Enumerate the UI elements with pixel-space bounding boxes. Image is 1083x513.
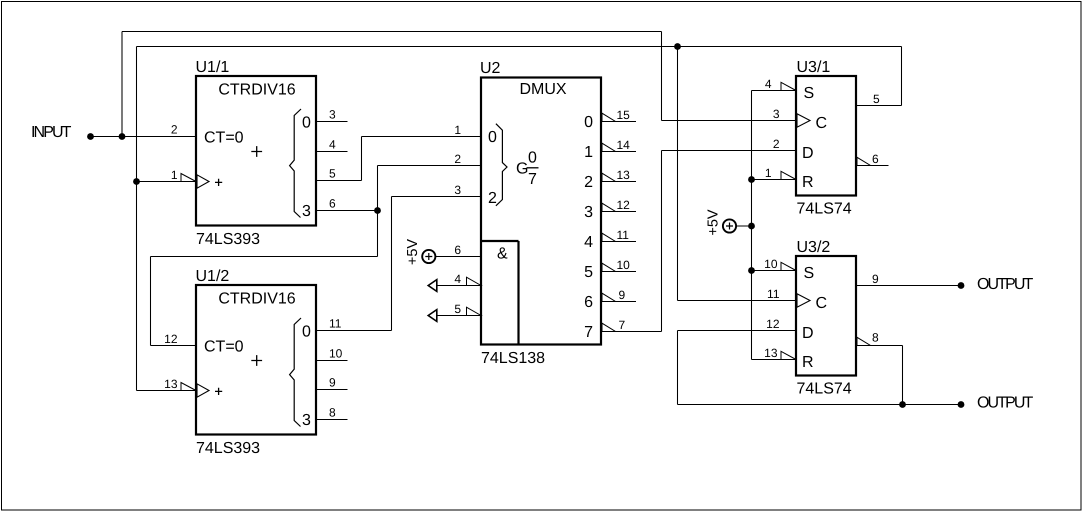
- svg-text:3: 3: [302, 203, 311, 220]
- wire: +5V rail to U3 S/R pins: [737, 91, 796, 360]
- wire: U2 out 7 to U3/1 D (pin 2): [602, 151, 796, 332]
- svg-text:CT=0: CT=0: [204, 130, 244, 147]
- svg-text:13: 13: [764, 346, 778, 360]
- stub: U3/1 pin 6: [857, 165, 889, 167]
- svg-text:3: 3: [584, 204, 593, 221]
- svg-text:3: 3: [773, 107, 780, 121]
- svg-text:1: 1: [765, 166, 772, 180]
- power +5V (U2 pin 6): [405, 239, 435, 266]
- svg-text:0: 0: [302, 323, 311, 340]
- svg-text:1: 1: [171, 168, 178, 182]
- svg-text:74LS74: 74LS74: [797, 380, 852, 397]
- svg-text:2: 2: [773, 137, 780, 151]
- stub: U1/1 pin 3: [317, 121, 348, 123]
- svg-text:S: S: [804, 265, 815, 282]
- node OUTPUT 1 terminal dot: [958, 282, 965, 289]
- flip-flop U3/1: [781, 76, 871, 196]
- svg-text:9: 9: [619, 288, 626, 302]
- svg-text:U3/2: U3/2: [797, 239, 831, 256]
- svg-text:7: 7: [584, 324, 593, 341]
- svg-text:&: &: [497, 246, 508, 263]
- svg-text:5: 5: [454, 302, 461, 316]
- svg-text:DMUX: DMUX: [519, 81, 566, 98]
- svg-text:74LS393: 74LS393: [196, 440, 260, 457]
- svg-text:4: 4: [584, 234, 593, 251]
- svg-text:OUTPUT: OUTPUT: [977, 276, 1034, 293]
- wire: clock net branch to U3/2 C (pin 11): [678, 47, 797, 301]
- svg-text:9: 9: [872, 272, 879, 286]
- svg-text:6: 6: [584, 294, 593, 311]
- svg-text:U1/1: U1/1: [196, 59, 230, 76]
- pin numbers U1/1: [171, 108, 336, 211]
- svg-text:7: 7: [619, 318, 626, 332]
- U2 output polarity wedges: [602, 113, 616, 331]
- svg-text:C: C: [816, 115, 828, 132]
- svg-text:3: 3: [454, 183, 461, 197]
- junction: clock net to U3/2 C branch: [674, 43, 681, 50]
- svg-text:6: 6: [329, 197, 336, 211]
- svg-text:D: D: [802, 325, 814, 342]
- wire: U3/2 D (pin 12) feedback from OUTPUT 2: [678, 331, 962, 405]
- junction: INPUT wire / top rail vertical: [119, 133, 126, 140]
- junction: +5V rail at U3/1 R: [748, 176, 755, 183]
- svg-text:CTRDIV16: CTRDIV16: [218, 82, 295, 99]
- junction: +5V rail at supply: [748, 223, 755, 230]
- svg-text:U3/1: U3/1: [797, 59, 831, 76]
- svg-text:S: S: [804, 85, 815, 102]
- svg-text:0: 0: [584, 114, 593, 131]
- power +5V (U3 set/reset rail): [706, 209, 737, 236]
- input terminal U2 pin 5: [428, 310, 437, 322]
- svg-text:0: 0: [488, 129, 497, 146]
- stub: U1/2 pin 9: [317, 389, 348, 391]
- svg-text:14: 14: [617, 138, 631, 152]
- svg-text:9: 9: [329, 376, 336, 390]
- wire: U3/2 Q-bar (pin 8) down to OUTPUT 2 rail: [857, 346, 903, 405]
- svg-text:6: 6: [872, 152, 879, 166]
- svg-text:10: 10: [764, 257, 778, 271]
- svg-text:1: 1: [584, 144, 593, 161]
- svg-text:U1/2: U1/2: [196, 268, 230, 285]
- svg-text:INPUT: INPUT: [31, 124, 72, 141]
- svg-text:11: 11: [767, 287, 780, 301]
- svg-text:13: 13: [617, 168, 631, 182]
- pin numbers U1/2: [164, 317, 343, 420]
- wire: U2 pin 4: [437, 285, 481, 287]
- svg-text:3: 3: [302, 412, 311, 429]
- demultiplexer U2: [481, 78, 601, 345]
- svg-text:10: 10: [617, 258, 631, 272]
- wire: INPUT net to U1/1 pin 2 and top rail to U3/1 C: [91, 32, 797, 137]
- svg-text:2: 2: [454, 152, 461, 166]
- U2 output stubs pins 15,14,13,12,11,10,9: [602, 122, 636, 302]
- svg-text:74LS393: 74LS393: [196, 231, 260, 248]
- svg-text:13: 13: [164, 377, 178, 391]
- svg-text:12: 12: [164, 332, 178, 346]
- svg-text:+5V: +5V: [706, 209, 722, 236]
- svg-text:R: R: [802, 174, 814, 191]
- svg-text:C: C: [816, 295, 828, 312]
- svg-text:5: 5: [329, 167, 336, 181]
- svg-text:0: 0: [302, 114, 311, 131]
- node OUTPUT 2 terminal dot: [958, 401, 965, 408]
- node INPUT terminal dot: [87, 133, 94, 140]
- wedge U2 pin 5: [467, 307, 482, 315]
- svg-text:5: 5: [873, 92, 880, 106]
- junction: pin 8 wire / OUTPUT 2 rail: [899, 401, 906, 408]
- svg-text:0: 0: [528, 150, 537, 167]
- letters S C D R (U3/1): [802, 85, 827, 191]
- svg-text:6: 6: [454, 243, 461, 257]
- wire: clock net from U3/1 Q (pin 5) to U1/1 pin 1 and U1/2 pin 13: [137, 47, 902, 391]
- pin numbers U3/1: [765, 77, 880, 180]
- svg-text:2: 2: [171, 123, 178, 137]
- svg-text:R: R: [802, 354, 814, 371]
- wire: U2 pin 5: [437, 315, 481, 317]
- svg-text:4: 4: [765, 77, 772, 91]
- input terminal U2 pin 4: [428, 280, 437, 292]
- svg-text:U2: U2: [480, 60, 501, 77]
- svg-text:1: 1: [454, 123, 461, 137]
- svg-text:8: 8: [329, 406, 336, 420]
- counter U1/2: [181, 285, 316, 435]
- svg-text:4: 4: [454, 272, 461, 286]
- junction: +5V rail at U3/2 S: [748, 267, 755, 274]
- svg-text:CT=0: CT=0: [204, 339, 244, 356]
- wire: U1/1 pin 5 to U2 pin 1: [317, 137, 481, 181]
- wire: U1/2 pin 11 to U2 pin 3: [317, 197, 481, 331]
- svg-text:11: 11: [329, 317, 342, 331]
- svg-text:OUTPUT: OUTPUT: [977, 395, 1034, 412]
- svg-text:+5V: +5V: [405, 239, 421, 266]
- svg-text:D: D: [802, 145, 814, 162]
- svg-text:11: 11: [617, 228, 630, 242]
- counter U1/1: [181, 76, 316, 226]
- svg-text:10: 10: [329, 347, 343, 361]
- pin numbers U2 left: [454, 123, 461, 316]
- label G 0/7 dependency: [516, 150, 537, 189]
- wire: U3/2 Q (pin 9) to OUTPUT 1: [857, 285, 961, 287]
- svg-text:12: 12: [766, 317, 780, 331]
- wire: +5V to U2 pin 6: [435, 256, 481, 258]
- pin numbers U2 outputs: [617, 108, 631, 332]
- stub: U1/2 pin 8: [317, 419, 348, 421]
- letters S C D R (U3/2): [802, 265, 827, 371]
- svg-text:5: 5: [584, 264, 593, 281]
- stub: U1/1 pin 4: [317, 151, 348, 153]
- svg-text:3: 3: [329, 108, 336, 122]
- labels 0-7 (U2 outputs inside): [584, 114, 593, 341]
- svg-text:74LS74: 74LS74: [797, 201, 852, 218]
- svg-text:2: 2: [488, 190, 497, 207]
- flip-flop U3/2: [781, 256, 871, 376]
- svg-text:8: 8: [872, 331, 879, 345]
- svg-text:7: 7: [528, 171, 537, 188]
- svg-text:74LS138: 74LS138: [481, 350, 545, 367]
- junction: U1/1 pin 6: [374, 207, 381, 214]
- svg-text:CTRDIV16: CTRDIV16: [218, 291, 295, 308]
- wire: U1/1 pin 6 net to U2 pin 2 and U1/2 pin 12: [151, 166, 482, 346]
- svg-text:4: 4: [329, 138, 336, 152]
- svg-text:12: 12: [617, 198, 631, 212]
- stub: U1/2 pin 10: [317, 360, 348, 362]
- svg-text:2: 2: [584, 174, 593, 191]
- wedge U2 pin 4: [467, 277, 482, 285]
- junction: clock net at U1/1 pin 1: [133, 178, 140, 185]
- pin numbers U3/2: [764, 257, 879, 360]
- svg-text:G: G: [516, 160, 528, 177]
- svg-text:15: 15: [617, 108, 631, 122]
